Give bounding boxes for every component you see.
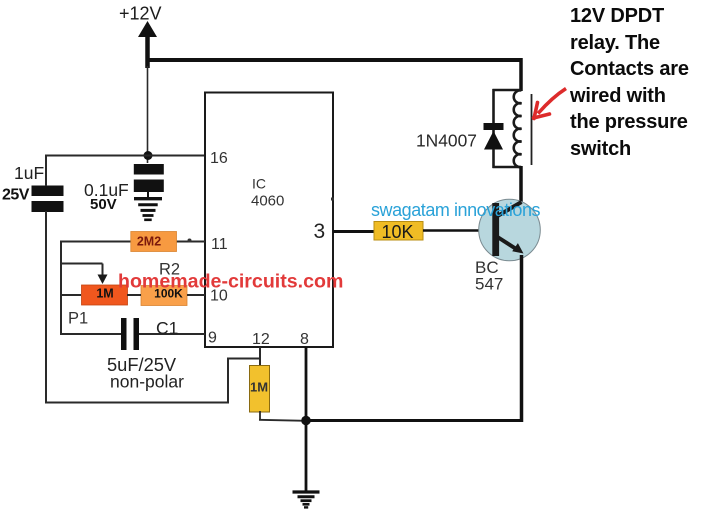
wire pin 11 bbox=[61, 241, 205, 243]
wire pin 12 vertical bbox=[259, 347, 261, 366]
svg-text:1uF: 1uF bbox=[14, 163, 44, 183]
relay coil box left branch wire bbox=[493, 89, 522, 168]
wire emitter vertical bbox=[520, 255, 524, 422]
transistor Q1 BC547 body bbox=[479, 199, 541, 261]
relay contact bar bbox=[531, 94, 533, 165]
svg-text:2M2: 2M2 bbox=[137, 235, 161, 249]
IC U1 4060 body bbox=[205, 93, 333, 348]
node small dot on pin11 wire bbox=[188, 239, 192, 243]
wire base (10K to transistor) bbox=[423, 229, 492, 232]
svg-text:4060: 4060 bbox=[251, 193, 284, 210]
pot P1 1M body bbox=[82, 285, 128, 305]
svg-text:25V: 25V bbox=[2, 187, 30, 204]
svg-text:10K: 10K bbox=[381, 222, 413, 242]
wire bottom rail (emitter to ground node) bbox=[304, 419, 523, 422]
capacitor 0.1uF/50V bbox=[134, 164, 164, 192]
svg-text:C1: C1 bbox=[156, 318, 178, 338]
wire pin 3 bbox=[333, 230, 374, 233]
resistor R2 100K bbox=[141, 286, 187, 306]
diode D1 1N4007 bbox=[484, 123, 504, 150]
svg-text:homemade-circuits.com: homemade-circuits.com bbox=[118, 271, 343, 293]
svg-text:16: 16 bbox=[210, 150, 228, 167]
svg-text:3: 3 bbox=[314, 220, 326, 243]
svg-text:1M: 1M bbox=[250, 380, 268, 395]
wire +12V vertical drop bbox=[147, 66, 149, 163]
svg-text:IC: IC bbox=[252, 176, 266, 192]
svg-text:547: 547 bbox=[475, 275, 503, 294]
svg-text:12: 12 bbox=[252, 331, 270, 348]
wire left loop vertical (pin11 to pin9) bbox=[60, 241, 62, 336]
resistor 10K bbox=[374, 222, 423, 243]
svg-text:swagatam innovations: swagatam innovations bbox=[371, 200, 541, 220]
wire bottom loop bbox=[45, 358, 260, 404]
svg-text:+12V: +12V bbox=[119, 4, 162, 24]
ground (0.1uF) bbox=[134, 192, 162, 220]
pin 3 edge tick bbox=[331, 198, 334, 201]
node junction +12V/pin16 bbox=[144, 151, 153, 160]
node junction ground bbox=[301, 416, 311, 426]
capacitor C1 5uF non-polar bbox=[121, 318, 139, 350]
wire pin 9 segments bbox=[60, 333, 205, 335]
wire below 1M to junction bbox=[259, 411, 306, 421]
svg-text:8: 8 bbox=[300, 331, 309, 348]
wire left vertical (1uF branch) bbox=[45, 155, 47, 404]
annotation red arrow bbox=[534, 89, 567, 119]
svg-text:P1: P1 bbox=[68, 310, 88, 328]
annotation text 12V DPDT relay bbox=[570, 3, 689, 163]
pot P1 wiper wire and arrow bbox=[60, 264, 108, 285]
wire relay to collector bbox=[519, 166, 523, 204]
svg-text:non-polar: non-polar bbox=[110, 372, 184, 392]
+12V arrow symbol bbox=[138, 21, 157, 68]
svg-text:1N4007: 1N4007 bbox=[416, 131, 477, 151]
svg-text:1M: 1M bbox=[96, 287, 113, 301]
svg-text:11: 11 bbox=[211, 236, 228, 253]
svg-text:9: 9 bbox=[208, 330, 217, 347]
wire pin 10 segments bbox=[60, 294, 205, 296]
svg-text:50V: 50V bbox=[90, 196, 117, 213]
ground (main) bbox=[293, 492, 320, 507]
capacitor 1uF/25V bbox=[32, 186, 64, 213]
relay coil windings bbox=[514, 90, 522, 167]
wire right rail upper bbox=[519, 58, 523, 91]
wire pin 8 vertical bbox=[305, 347, 308, 491]
wire pin 16 bbox=[45, 155, 205, 157]
resistor 1M (pin 12) bbox=[250, 366, 270, 413]
wire top supply rail bbox=[146, 58, 522, 62]
resistor 2M2 bbox=[131, 232, 177, 252]
